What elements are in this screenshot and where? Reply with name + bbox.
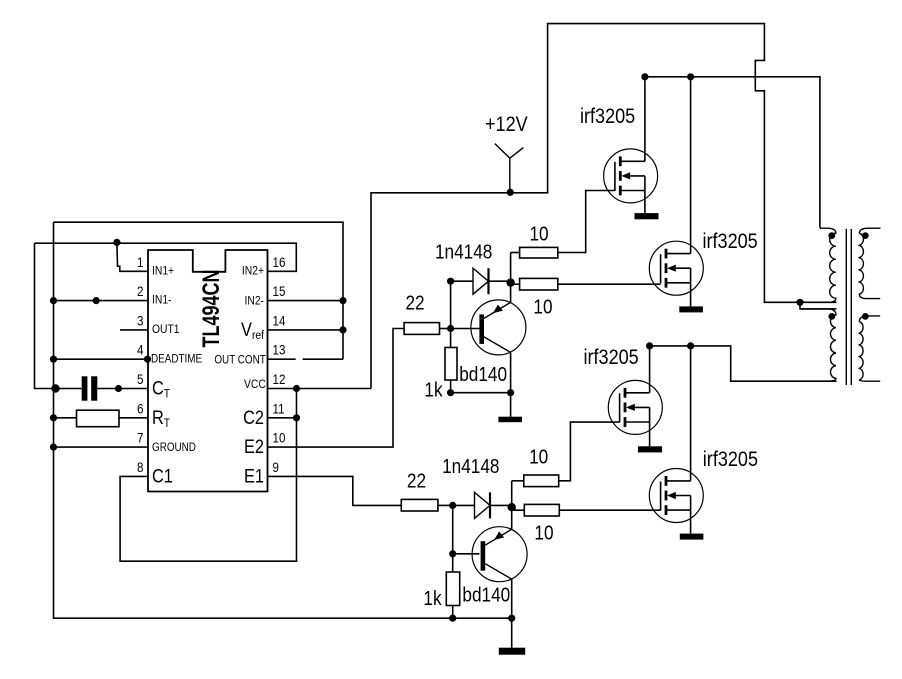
transistor M2 irf3205 (second MOSFET) <box>649 241 703 295</box>
svg-text:16: 16 <box>273 255 286 270</box>
transformer T1 core <box>846 229 851 385</box>
svg-text:TL494CN: TL494CN <box>199 270 225 348</box>
pin 13 OUT CONT stub (left part, gap before joining wire) <box>268 358 296 360</box>
wire segment joining x=343 vertical to pin13 stub (right part of gap) <box>303 358 343 360</box>
wire vertical diode D1 anode down through base node to R4 1k top <box>450 281 452 347</box>
resistor R1 22 (E2 base drive) <box>404 323 439 335</box>
ground (M4 source) <box>680 534 704 540</box>
svg-text:13: 13 <box>273 343 286 358</box>
svg-text:11: 11 <box>273 402 285 417</box>
capacitor CT (timing capacitor at pin 5) <box>82 376 98 400</box>
wire R8 1k bottom lead <box>452 606 454 619</box>
svg-text:7: 7 <box>137 431 143 446</box>
wire M2 drain vertical <box>690 77 692 254</box>
wire diode D2 anode lead <box>453 504 475 506</box>
svg-text:C1: C1 <box>152 466 173 487</box>
wire pin 4 DEADTIME from ground rail <box>54 358 149 360</box>
wire ground-rail vertical x=53.5 and bottom run to Q2 ground node <box>54 222 512 618</box>
svg-text:4: 4 <box>137 343 143 358</box>
svg-text:22: 22 <box>407 469 426 492</box>
wire Q2 collector down to bottom wire and ground stem <box>511 578 513 648</box>
svg-text:C2: C2 <box>243 407 264 428</box>
ground (Q2 collector) <box>499 648 525 655</box>
wire bottom link R4 to Q1 collector and ground stem <box>451 393 511 417</box>
resistor R5 22 (E1 base drive) <box>401 499 438 511</box>
node junction: ground rail / RT row <box>50 414 57 421</box>
svg-text:8: 8 <box>137 460 143 475</box>
svg-text:bd140: bd140 <box>459 363 507 386</box>
transformer T1 secondary lower winding <box>859 316 880 381</box>
+12V supply antenna symbol <box>495 144 524 193</box>
node junction: pin15 / x=343 vertical <box>339 297 346 304</box>
resistor R8 1k (Q2 base pulldown) <box>446 572 459 606</box>
svg-text:DEADTIME: DEADTIME <box>151 353 202 366</box>
ground (M3 source) <box>638 446 662 452</box>
svg-text:bd140: bd140 <box>462 583 510 606</box>
node junction: ground rail / GROUND pin <box>50 444 57 451</box>
wire diode D2 cathode lead to emitter node <box>490 504 512 506</box>
resistor R7 10 (gate M4) <box>524 504 559 516</box>
svg-text:22: 22 <box>406 291 425 314</box>
wire Q1 collector down to ground link <box>510 352 512 392</box>
wire R5 right lead to diode D2 anode junction <box>438 504 453 506</box>
wire R1 right lead to base junction <box>440 328 451 330</box>
node junction: ground rail / CT row <box>51 384 59 392</box>
node junction: VCC / C1-C2 vertical <box>293 385 300 392</box>
wire M4 drain vertical <box>690 346 692 481</box>
node junction: ground rail / pin4 <box>50 356 57 363</box>
wire R4 1k bottom lead <box>450 380 452 393</box>
wire center tap drop to lower primary winding top <box>800 302 837 309</box>
node junction: D2 cathode / R6 R7 / Q2 emitter <box>508 503 516 511</box>
svg-text:1: 1 <box>137 255 143 270</box>
svg-text:IN2-: IN2- <box>245 295 265 308</box>
transistor M1 irf3205 (top MOSFET) <box>604 149 658 203</box>
svg-text:OUT1: OUT1 <box>152 323 180 336</box>
transistor Q2 bd140 (PNP) <box>472 527 527 582</box>
phase dot primary upper winding <box>828 232 835 239</box>
wire M4 source to ground stem <box>690 510 692 533</box>
svg-text:E1: E1 <box>244 466 264 487</box>
node junction: CT right plate lead <box>115 385 122 392</box>
wire diode D1 cathode lead to emitter node <box>489 280 511 282</box>
wire lower drain bus from M3/M4 drains to transformer lower primary bottom <box>650 346 837 381</box>
node junction: Q2 collector / bottom wire <box>508 615 515 622</box>
svg-text:14: 14 <box>273 314 286 329</box>
svg-text:GROUND: GROUND <box>152 441 196 454</box>
phase dot secondary upper winding <box>862 232 869 239</box>
svg-text:VCC: VCC <box>244 378 266 391</box>
wire emitter node vertical (R6/R7 leads to Q2 emitter) <box>511 481 513 529</box>
wire left vertical x=34.5 down to CT row, to capacitor left plate <box>35 243 82 388</box>
svg-text:irf3205: irf3205 <box>703 230 758 254</box>
diode D1 1n4148 <box>473 268 489 294</box>
node junction: Q2 base / pulldown <box>449 550 456 557</box>
node junction: M2 drain / bus <box>687 73 694 80</box>
svg-text:OUT CONT: OUT CONT <box>214 354 266 367</box>
wire R3 right lead to M2 gate <box>558 283 661 285</box>
wire to resistor R7 10 left lead <box>512 509 525 511</box>
resistor R2 10 (gate M1) <box>520 247 558 258</box>
node junction: R8 bottom / bottom wire <box>449 615 456 622</box>
node junction: C2 pin / vertical <box>293 414 300 421</box>
pin 3 OUT1 open stub <box>120 329 148 331</box>
wire to resistor R2 10 left lead <box>511 252 520 254</box>
svg-text:1n4148: 1n4148 <box>442 455 499 478</box>
transistor M3 irf3205 (third MOSFET) <box>608 380 662 434</box>
svg-text:10: 10 <box>529 445 548 468</box>
node junction: R4 bottom / ground link <box>447 389 454 396</box>
diode D2 1n4148 <box>475 492 491 518</box>
node junction: R1 / Q1 base / pulldown <box>447 325 454 332</box>
ground (M1 source) <box>635 213 659 219</box>
ground (M2 source) <box>679 306 703 312</box>
node junction: +12V supply tap <box>507 189 514 196</box>
transformer T1 primary lower winding <box>800 309 836 381</box>
resistor R6 10 (gate M3) <box>524 475 559 487</box>
node junction: pin1 drop on top wire <box>113 239 120 246</box>
wire pin 11 C2 to vertical <box>268 417 297 419</box>
node junction: pin14 / x=343 vertical <box>339 326 346 333</box>
node junction: transformer center tap <box>796 299 803 306</box>
wire base junction to Q1 base <box>451 328 480 330</box>
resistor RT (timing resistor at pin 6) <box>77 410 120 427</box>
phase dot secondary lower winding <box>862 313 869 320</box>
svg-text:9: 9 <box>273 460 279 475</box>
node junction on pin2 wire <box>93 297 100 304</box>
wire ground rail to resistor RT left lead <box>54 417 77 419</box>
svg-text:IN2+: IN2+ <box>242 265 264 278</box>
wire pin 9 E1 right, down, to resistor R5 22 left lead <box>268 476 402 505</box>
svg-text:irf3205: irf3205 <box>584 346 639 370</box>
node junction at DEADTIME pin <box>144 356 151 363</box>
wire R2 right lead up to M1 gate <box>558 191 615 253</box>
wire M3 drain vertical <box>649 346 651 393</box>
svg-text:2: 2 <box>137 284 143 299</box>
svg-text:IN1+: IN1+ <box>152 265 174 278</box>
node junction: M1 drain / bus <box>641 73 648 80</box>
wire to resistor R3 10 left lead <box>511 283 520 285</box>
node junction: R5 / D2 anode <box>449 502 456 509</box>
svg-text:15: 15 <box>273 284 286 299</box>
wire pin 8 C1 loop down-right-up to VCC/C2 node <box>120 389 296 562</box>
node junction: ground rail / pin2 <box>50 297 57 304</box>
wire capacitor right plate to pin 5 CT <box>97 388 148 390</box>
svg-text:10: 10 <box>530 222 549 245</box>
wire to resistor R6 10 left lead <box>512 480 524 482</box>
svg-text:10: 10 <box>534 521 553 544</box>
ground (Q1 collector) <box>498 417 522 423</box>
wire pin 14 Vref to x=343 vertical <box>268 329 344 331</box>
svg-text:irf3205: irf3205 <box>703 448 758 472</box>
wire from rail top across to x=343 then down to pin13 row <box>54 222 344 359</box>
svg-text:3: 3 <box>137 314 143 329</box>
wire M3 source to ground stem <box>649 422 651 446</box>
wire pin 2 IN1- from ground rail <box>54 300 149 302</box>
node junction: Q1 collector / ground link <box>507 389 514 396</box>
wire M1 drain vertical <box>644 77 646 162</box>
wire emitter node vertical (R2/R3 leads to Q1 emitter) <box>510 253 512 303</box>
svg-text:6: 6 <box>137 402 143 417</box>
wire upper drain bus from M1/M2 drains to transformer upper primary top <box>645 77 820 228</box>
svg-text:+12V: +12V <box>485 113 528 137</box>
svg-text:1n4148: 1n4148 <box>435 240 492 263</box>
wire diode D1 anode lead <box>451 280 473 282</box>
wire M2 source to ground stem <box>690 283 692 307</box>
wire pin 15 IN2- to x=343 vertical <box>268 300 344 302</box>
node junction: D1 anode <box>447 278 454 285</box>
node junction: D1 cathode / R2 R3 / Q1 emitter <box>506 278 514 286</box>
wire pin 10 E2 right, up, to resistor R1 22 left lead <box>268 329 405 448</box>
wire vertical D2 anode down through base node to R8 1k top <box>452 505 454 572</box>
svg-text:irf3205: irf3205 <box>580 105 635 129</box>
wire R6 right lead up to M3 gate <box>559 422 620 481</box>
wire from x=34.5 across IC top to pin 16 IN2+ <box>35 243 297 271</box>
wire R7 right lead to M4 gate <box>559 509 660 511</box>
svg-text:10: 10 <box>273 431 286 446</box>
phase dot primary lower winding <box>828 313 835 320</box>
transformer T1 primary upper winding <box>820 228 836 302</box>
svg-text:5: 5 <box>137 372 143 387</box>
transistor Q1 bd140 (PNP) <box>471 300 526 355</box>
svg-text:12: 12 <box>273 372 286 387</box>
wire resistor RT right lead to pin 6 RT <box>119 417 148 419</box>
wire M1 source to ground stem <box>644 191 646 214</box>
svg-text:10: 10 <box>533 295 552 318</box>
wire base junction to Q2 base <box>453 553 480 555</box>
svg-text:IN1-: IN1- <box>152 294 172 307</box>
resistor R4 1k (Q1 base pulldown) <box>445 348 457 381</box>
node junction: M4 drain / bus <box>687 342 694 349</box>
wire pin 12 VCC to riser x=371 <box>268 388 372 390</box>
wire pin 7 GROUND from ground rail <box>54 446 149 448</box>
transistor M4 irf3205 (bottom MOSFET) <box>649 469 703 523</box>
wire +12V net: VCC riser, top run, jog, down to transformer center tap <box>371 24 837 389</box>
resistor R3 10 (gate M2) <box>520 278 558 290</box>
op-amp U1 TL494CN IC body with top notch <box>148 250 268 492</box>
svg-text:E2: E2 <box>244 436 264 457</box>
svg-text:1k: 1k <box>423 587 442 610</box>
transformer T1 secondary upper winding <box>859 228 880 298</box>
svg-text:1k: 1k <box>424 378 443 401</box>
wire drop from junction to pin 1 IN1+ <box>117 242 148 271</box>
node junction: M3 drain / bus <box>646 342 653 349</box>
